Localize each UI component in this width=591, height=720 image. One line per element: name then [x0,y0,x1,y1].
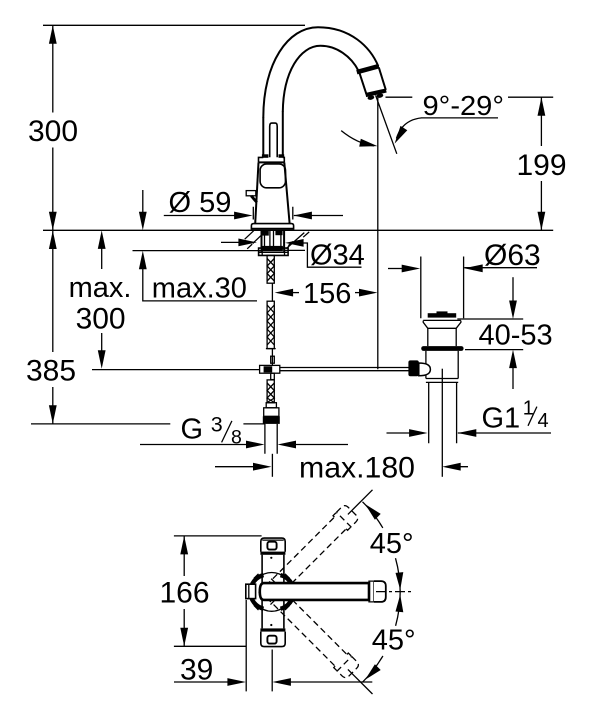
dimension 166 arrow bottom [180,628,188,647]
dimension 166 top extension [174,535,262,537]
flange top edge [423,319,461,321]
svg-text:199: 199 [516,149,566,182]
bottom mount block [261,632,285,647]
angle arc middle segment [396,558,401,626]
top block inner edge [262,539,283,541]
aerator dots [367,95,375,101]
D59 extension ticks [253,207,292,220]
spout outer curve [263,27,378,117]
dimension 166 arrow top [180,536,188,555]
stopper top bump [437,311,448,313]
hose lines [265,424,277,454]
svg-text:45°: 45° [370,528,414,560]
dimension 40-53 upper arrow [512,277,514,301]
svg-text:max.30: max.30 [152,273,247,305]
deck bottom line left [133,250,262,252]
cross fitting [260,365,280,373]
dimension D34 right arrow with leader [302,243,362,267]
dimension G3/8 arrows [140,444,348,446]
deck hatch right [286,232,309,249]
dimension 300 line [52,25,54,230]
collar black tabs [262,154,269,158]
spout plan end cap [374,581,386,602]
D59 arrow right [293,212,312,220]
threads lower [267,383,274,403]
dimension D63 extension lines [421,257,464,319]
arc arrow upper end [365,504,381,520]
svg-text:300: 300 [76,303,126,336]
stopper top bar [428,313,457,317]
lever joystick [270,123,278,157]
dimension 199 top extension [386,96,554,98]
joint scallop marks [254,574,290,610]
svg-text:Ø34: Ø34 [310,240,365,272]
dimension max.180 arrows [215,466,254,468]
spout end right edge [379,67,386,90]
threaded shank upper [267,255,274,283]
svg-text:max.: max. [69,272,132,304]
top mount block [261,538,285,552]
threads upper [267,259,274,282]
left tab inner line [248,584,250,598]
swivel joint outer circle [252,573,291,612]
spout ring band [357,66,379,72]
angle arc lower segment [363,656,383,682]
body right edge [284,162,289,223]
svg-text:300: 300 [28,115,78,148]
dimension D59 line [164,215,343,217]
spout outlet vertical reference line [377,98,379,370]
spout stream angled line [376,95,397,154]
shank dark blocks [262,231,269,236]
dimension 40-53 bottom extension [465,349,523,351]
svg-text:Ø 59: Ø 59 [169,187,232,219]
drain body [426,351,458,379]
dimension 156 left arrow [293,292,299,294]
45 extension line upper [348,490,373,515]
lift rod pin lower [271,373,275,379]
dimension max.30 upper arrow above deck [142,190,144,212]
spout plan end vertical [373,581,375,602]
thread shank bottom tick [266,348,276,350]
drain upper cylinder [428,328,456,346]
pop-up rod right double line [280,368,409,371]
arc arrow lower middle [396,595,404,613]
spout plan end step [369,581,374,602]
side lever handle [251,196,257,203]
swivel joint right serrated crescent [281,575,294,609]
dimension max.300 lower shaft and arrow [101,333,103,351]
dimension 300 arrow bottom [49,212,57,231]
tailpipe [429,382,457,443]
svg-text:3: 3 [211,412,223,436]
lift rod segment [271,283,273,301]
svg-text:8: 8 [231,426,242,448]
dimension 166 line [183,536,185,646]
mounting nut [259,248,289,255]
dimension max.30 lower arrow below deck bottom [143,269,257,301]
svg-text:39: 39 [180,654,213,687]
spout inner curve [283,46,359,112]
svg-text:G1: G1 [482,403,521,435]
dashed handle upper 45 [257,504,359,606]
dimension G1 1/4 arrows [387,432,411,434]
angle leader curve from label [396,118,421,139]
spout aerator face [366,91,387,96]
swivel curved arrow left [341,131,374,146]
dimension D63 left arrow [388,268,403,270]
top black band [260,552,285,555]
dimension 385 line [52,231,54,424]
flange bottom line [428,327,456,329]
top block square hole [267,542,276,550]
threaded shank middle [267,301,274,348]
bottom black band [260,628,285,631]
45 extension line lower [348,669,373,694]
deck top line [43,229,553,231]
bottom block square hole [267,636,276,644]
hose nut small [266,403,276,408]
escutcheon rounded square [260,164,285,188]
svg-text:40-53: 40-53 [479,320,553,352]
hose nut big black [263,416,280,424]
hose nut middle [264,408,279,417]
hose center line lower [271,454,273,477]
solid spout plan [260,583,369,600]
arc arrow upper middle [396,572,404,590]
mounting nut line [259,248,289,255]
dimension 39 extension lines [246,600,272,691]
flange sides [423,321,461,329]
SECTION: bottom plan view [159,490,415,694]
ball housing [419,363,431,376]
side lever bar [246,191,256,196]
spout center dash-dot line [376,591,412,593]
cross fitting black center [264,366,273,372]
swivel joint left serrated crescent [250,575,263,609]
rubber gasket [421,346,463,351]
pop-up rod left line [92,369,260,371]
shank inner lines [265,230,281,247]
body top edge [259,161,285,163]
dimension 199 line [540,97,542,230]
dimension D63 right arrow and label line [464,267,537,269]
dimension 40-53 top extension [457,318,523,320]
D59 arrow left [234,212,253,220]
body dots [270,557,272,559]
collar at tube base [259,157,285,162]
dimension 39 line with arrow [174,681,241,683]
lift rod pin upper [271,356,275,363]
label 9-29 underline [421,117,498,119]
dimension D34 left arrow [221,241,239,243]
svg-text:45°: 45° [372,624,416,656]
drain center line [441,369,443,477]
dimension 300 arrow top [49,25,57,44]
svg-text:156: 156 [303,278,351,310]
svg-text:max.180: max.180 [299,452,415,485]
top reference line [43,24,305,26]
shank outer walls [262,230,285,251]
left tab [246,584,256,598]
dimension 156 right arrow [355,292,360,294]
base plate [251,224,293,230]
svg-text:4: 4 [538,410,549,432]
pop-up knob black [408,360,418,376]
deck bottom line right [284,249,305,251]
dimension 40-53 lower arrow [512,368,514,389]
deck hatch left [245,231,262,249]
lift rod segment 2 [271,349,273,366]
SECTION: faucet side view [92,27,409,477]
svg-text:Ø63: Ø63 [484,239,541,272]
base plate bottom edge [251,228,293,230]
spout tube right line [282,112,284,158]
angle arc upper segment [363,502,383,528]
threaded shank lower [267,380,274,403]
shank rod lines [270,230,274,251]
dimension max.300 arrow up at deck [101,248,103,269]
spout end left edge [360,73,367,94]
dimension 199 arrow bottom [538,212,546,231]
coupling lines [426,379,458,383]
svg-text:385: 385 [26,355,76,388]
hose-end level line under G3/8 [31,423,265,425]
dashed handle lower 45 [258,577,360,679]
spout tube left line [262,117,264,157]
SECTION: drain assembly [408,311,463,476]
body left edge [255,162,258,223]
threads middle [267,305,274,345]
dimension 385 arrow top [49,231,57,250]
arc arrow lower end [365,664,381,680]
dimension 166 bottom extension [174,645,246,647]
plan body sides [262,555,284,629]
dimension 385 arrow bottom [49,405,57,424]
svg-text:G: G [181,413,204,445]
dimension 39 right arrow [290,681,372,683]
svg-text:9°-29°: 9°-29° [423,90,505,121]
SECTION: side view dimensions [26,25,567,484]
svg-text:166: 166 [159,576,209,609]
dimension 199 arrow top [538,97,546,116]
